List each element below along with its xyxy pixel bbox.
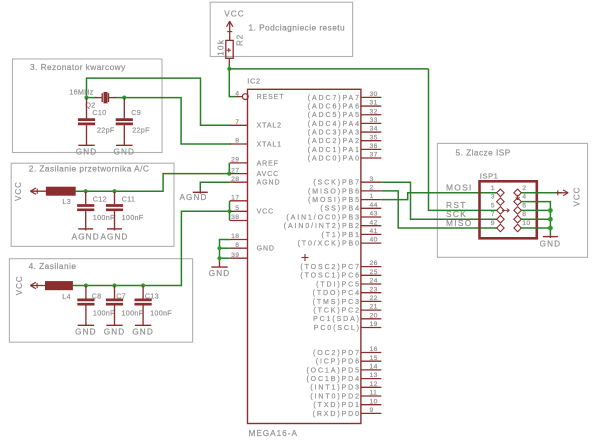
junction crystal left: [84, 96, 88, 100]
svg-text:C8: C8: [92, 291, 102, 300]
pin 34 stub: [361, 131, 381, 133]
svg-text:ISP1: ISP1: [480, 171, 499, 180]
pin 38 stub: [230, 220, 248, 222]
svg-text:8: 8: [235, 138, 239, 145]
svg-text:27: 27: [231, 167, 239, 174]
svg-text:5. Zlacze ISP: 5. Zlacze ISP: [456, 147, 511, 157]
IC2 origin cross: [302, 257, 309, 259]
power VCC (reset pull-up): [229, 21, 231, 40]
svg-text:L4: L4: [62, 292, 71, 301]
ground AGND near IC2: [199, 190, 201, 194]
wire crystal left node: [87, 97, 97, 99]
pin 16 stub: [361, 352, 381, 354]
capacitor C10: [86, 98, 88, 119]
svg-text:22pF: 22pF: [97, 126, 115, 135]
pin 43 stub: [361, 216, 381, 218]
svg-text:42: 42: [370, 219, 378, 226]
ground GND under C8: [85, 320, 87, 325]
svg-text:26: 26: [370, 260, 378, 267]
svg-text:(OC2)PD7: (OC2)PD7: [313, 350, 361, 357]
svg-text:(INT1)PD3: (INT1)PD3: [310, 385, 361, 392]
svg-text:31: 31: [370, 100, 378, 107]
wire AGND pin to AGND symbol: [200, 182, 230, 190]
svg-text:7: 7: [235, 119, 239, 126]
pin 12 stub: [361, 386, 381, 388]
junction L3-C11 tap: [112, 189, 116, 193]
junction L3-C12 tap: [84, 189, 88, 193]
wire main VCC net to IC VCC pin: [72, 211, 229, 285]
svg-text:C7: C7: [116, 291, 126, 300]
svg-text:GND: GND: [132, 327, 154, 336]
junction L4-C13 tap: [141, 283, 145, 287]
ground AGND under C12: [78, 228, 93, 230]
junction crystal right: [122, 96, 126, 100]
svg-text:2: 2: [522, 185, 526, 192]
pin 4 RESET with inversion circle: [237, 96, 243, 98]
ISP1 pin 5 direction arrow: [502, 209, 509, 211]
svg-text:C11: C11: [122, 194, 136, 203]
svg-text:10k: 10k: [217, 39, 226, 56]
svg-text:100nF: 100nF: [93, 213, 115, 222]
svg-text:XTAL1: XTAL1: [257, 141, 282, 148]
svg-text:C13: C13: [145, 291, 159, 300]
svg-text:AGND: AGND: [257, 180, 281, 187]
svg-text:AVCC: AVCC: [257, 171, 280, 178]
svg-text:(ADC5)PA5: (ADC5)PA5: [308, 112, 361, 119]
svg-text:5: 5: [491, 202, 495, 209]
pin 7 stub: [230, 124, 248, 126]
pin 30 stub: [361, 96, 381, 98]
svg-text:4. Zasilanie: 4. Zasilanie: [29, 261, 77, 271]
svg-text:(TCK)PC2: (TCK)PC2: [313, 308, 360, 315]
pin 15 stub: [361, 360, 381, 362]
svg-text:IC2: IC2: [247, 77, 260, 86]
svg-text:33: 33: [370, 117, 378, 124]
pin 2 stub: [361, 190, 381, 192]
wire XTAL1 net: [124, 98, 231, 144]
svg-text:20: 20: [370, 312, 378, 319]
svg-text:39: 39: [231, 252, 239, 259]
wire GND pin 6 branch: [220, 247, 230, 249]
pin 35 stub: [361, 140, 381, 142]
svg-text:1: 1: [491, 185, 495, 192]
svg-text:13: 13: [370, 372, 378, 379]
junction ISP pin 8: [548, 217, 553, 222]
svg-text:XTAL2: XTAL2: [257, 123, 282, 130]
capacitor C8: [85, 286, 87, 299]
wire RST net to ISP: [429, 69, 497, 211]
svg-text:25: 25: [370, 269, 378, 276]
wire ISP pin 8 branch: [521, 218, 550, 220]
pin 40 stub: [361, 242, 381, 244]
svg-text:(TXD)PD1: (TXD)PD1: [313, 402, 360, 409]
wire crystal right node: [115, 97, 125, 99]
pin 9 stub: [361, 412, 381, 414]
svg-text:VCC: VCC: [573, 187, 582, 207]
ISP1 pin 1 pad: [497, 189, 504, 196]
svg-text:(TMS)PC3: (TMS)PC3: [313, 299, 361, 306]
power VCC (main supply): [30, 285, 46, 287]
svg-text:3: 3: [491, 194, 495, 201]
svg-text:2: 2: [370, 185, 374, 192]
svg-text:(SS)PB4: (SS)PB4: [320, 206, 361, 213]
svg-text:40: 40: [370, 237, 378, 244]
svg-text:(TOSC2)PC7: (TOSC2)PC7: [300, 264, 361, 271]
svg-text:AREF: AREF: [257, 160, 279, 167]
pin 13 stub: [361, 378, 381, 380]
frame box 5 (Zlacze ISP): [437, 143, 587, 257]
svg-text:GND: GND: [257, 246, 275, 253]
ground GND under C7: [114, 320, 116, 325]
svg-text:19: 19: [370, 321, 378, 328]
svg-text:(ADC7)PA7: (ADC7)PA7: [308, 95, 361, 102]
svg-text:(ADC4)PA4: (ADC4)PA4: [308, 121, 361, 128]
svg-text:GND: GND: [540, 240, 562, 249]
junction reset node: [227, 67, 231, 71]
wire reset node to RST column: [229, 68, 428, 70]
inductor L4: [46, 282, 73, 290]
wire XTAL2 net: [87, 78, 232, 125]
wire MISO net PB6 to ISP: [381, 191, 497, 228]
svg-text:AGND: AGND: [179, 193, 207, 202]
svg-text:11: 11: [370, 390, 378, 397]
svg-text:GND: GND: [75, 327, 97, 336]
wire ISP pin 10 branch: [521, 227, 550, 229]
ISP1 pin 9 pad: [497, 224, 504, 231]
svg-text:VCC: VCC: [224, 9, 245, 18]
ground GND at ISP: [549, 236, 551, 238]
svg-text:17: 17: [231, 195, 239, 202]
svg-text:34: 34: [370, 126, 378, 133]
svg-text:16MHz: 16MHz: [69, 88, 93, 97]
svg-text:(SCK)PB7: (SCK)PB7: [313, 180, 361, 187]
svg-text:100nF: 100nF: [93, 308, 115, 317]
svg-text:(ADC0)PA0: (ADC0)PA0: [308, 155, 361, 162]
pin 20 stub: [361, 318, 381, 320]
wire MOSI net PB5 to ISP: [381, 193, 497, 200]
pin 1 stub: [361, 199, 381, 201]
connector ISP1 body: [480, 181, 537, 238]
pin 3 stub: [361, 181, 381, 183]
pin 10 stub: [361, 404, 381, 406]
svg-text:AGND: AGND: [100, 232, 128, 241]
svg-text:(OC1A)PD5: (OC1A)PD5: [306, 367, 360, 374]
junction GND pin 39: [217, 256, 221, 260]
svg-text:44: 44: [370, 202, 378, 209]
ISP1 pin 2 pad: [514, 189, 521, 196]
ISP1 pin 4 direction arrow: [517, 195, 519, 200]
svg-text:(MISO)PB6: (MISO)PB6: [308, 188, 361, 195]
svg-text:(ADC2)PA2: (ADC2)PA2: [308, 138, 361, 145]
wire AREF tie to AVCC: [228, 163, 230, 174]
svg-text:14: 14: [370, 364, 378, 371]
junction ISP pin 6: [548, 208, 553, 213]
svg-text:41: 41: [370, 228, 378, 235]
pin 32 stub: [361, 114, 381, 116]
frame box 2 (Zasilanie przetwornika A/C): [11, 163, 174, 246]
svg-text:VCC: VCC: [257, 209, 274, 216]
svg-text:(TOSC1)PC6: (TOSC1)PC6: [300, 273, 361, 280]
pin 23 stub: [361, 292, 381, 294]
svg-text:10: 10: [522, 220, 530, 227]
pin 31 stub: [361, 105, 381, 107]
svg-text:AGND: AGND: [72, 232, 100, 241]
svg-text:18: 18: [231, 233, 239, 240]
pin 24 stub: [361, 283, 381, 285]
svg-text:C9: C9: [131, 108, 141, 117]
svg-text:10: 10: [370, 398, 378, 405]
junction L4-C7 tap: [112, 283, 116, 287]
pin 22 stub: [361, 300, 381, 302]
svg-text:1: 1: [370, 193, 374, 200]
ground GND under C10: [86, 140, 88, 145]
junction ISP pin 10: [548, 226, 553, 231]
svg-text:R2: R2: [235, 34, 244, 46]
svg-text:L3: L3: [62, 197, 71, 206]
pin 39 stub: [230, 257, 248, 259]
svg-text:100nF: 100nF: [150, 308, 172, 317]
svg-text:9: 9: [491, 220, 495, 227]
pin 41 stub: [361, 233, 381, 235]
pin 28 stub: [230, 181, 248, 183]
svg-text:GND: GND: [209, 269, 231, 278]
svg-text:(ADC3)PA3: (ADC3)PA3: [308, 129, 361, 136]
pin 17 stub: [230, 200, 248, 202]
ground GND under IC2: [219, 262, 221, 267]
pin 5 stub: [230, 210, 248, 212]
svg-text:36: 36: [370, 143, 378, 150]
svg-text:38: 38: [231, 214, 239, 221]
svg-text:GND: GND: [104, 327, 126, 336]
svg-text:(TDO)PC4: (TDO)PC4: [313, 290, 361, 297]
svg-text:RESET: RESET: [257, 94, 285, 101]
svg-text:29: 29: [231, 157, 239, 164]
svg-text:43: 43: [370, 211, 378, 218]
pin 11 stub: [361, 395, 381, 397]
pin 44 stub: [361, 207, 381, 209]
junction L4-C8 tap: [84, 283, 88, 287]
svg-text:16: 16: [370, 346, 378, 353]
capacitor C9: [123, 98, 125, 119]
pin 26 stub: [361, 266, 381, 268]
svg-text:23: 23: [370, 286, 378, 293]
svg-text:100nF: 100nF: [122, 213, 144, 222]
wire SCK net PB7 to ISP: [381, 182, 497, 219]
svg-text:MEGA16-A: MEGA16-A: [249, 429, 298, 438]
ISP1 pin 3 pad: [497, 198, 504, 205]
wire ISP pin 4 to GND bus: [521, 202, 550, 236]
svg-text:8: 8: [522, 211, 526, 218]
svg-text:GND: GND: [76, 147, 98, 156]
pin 37 stub: [361, 157, 381, 159]
capacitor C7: [114, 286, 116, 299]
svg-text:MISO: MISO: [446, 218, 473, 228]
wire GND pin 39 branch: [220, 257, 230, 259]
svg-text:PC1(SDA): PC1(SDA): [313, 316, 361, 323]
svg-text:MOSI: MOSI: [446, 182, 473, 192]
svg-text:30: 30: [370, 91, 378, 98]
svg-text:C10: C10: [92, 108, 106, 117]
svg-text:C12: C12: [93, 194, 107, 203]
pin 36 stub: [361, 148, 381, 150]
junction VCC pin node: [227, 209, 231, 213]
svg-text:GND: GND: [114, 147, 136, 156]
inductor L3: [46, 187, 75, 195]
pin 42 stub: [361, 225, 381, 227]
svg-text:4: 4: [235, 90, 239, 97]
ground GND under C13: [142, 320, 144, 325]
pin 8 stub: [230, 143, 248, 145]
svg-text:22: 22: [370, 295, 378, 302]
svg-text:(T0/XCK)PB0: (T0/XCK)PB0: [298, 241, 361, 248]
ground AGND under C11: [107, 228, 122, 230]
svg-text:(ADC1)PA1: (ADC1)PA1: [308, 147, 361, 154]
svg-text:(ADC6)PA6: (ADC6)PA6: [308, 103, 361, 110]
svg-text:2. Zasilanie przetwornika A/C: 2. Zasilanie przetwornika A/C: [29, 164, 150, 174]
ISP1 pin 8 pad: [514, 215, 521, 222]
svg-text:(INT0)PD2: (INT0)PD2: [310, 393, 361, 400]
svg-text:3: 3: [370, 176, 374, 183]
pin 19 stub: [361, 327, 381, 329]
svg-text:22pF: 22pF: [132, 126, 150, 135]
svg-text:24: 24: [370, 278, 378, 285]
ISP1 pin 4 pad: [514, 198, 521, 205]
svg-text:6: 6: [235, 242, 239, 249]
frame box 4 (Zasilanie): [9, 259, 192, 343]
resistor R2: [226, 40, 233, 58]
svg-text:9: 9: [370, 407, 374, 414]
ground GND under C9: [123, 140, 125, 145]
wire analog VCC net to AVCC: [75, 174, 229, 192]
crystal Q2: [95, 97, 102, 99]
svg-text:15: 15: [370, 355, 378, 362]
wire ISP pin 6 branch: [521, 209, 550, 211]
capacitor C11: [114, 191, 116, 204]
svg-text:28: 28: [231, 176, 239, 183]
pin 29 stub: [230, 162, 248, 164]
ISP1 pin 7 pad: [497, 215, 504, 222]
pin 33 stub: [361, 122, 381, 124]
svg-text:(AIN0/INT2)PB2: (AIN0/INT2)PB2: [284, 223, 361, 230]
svg-text:(AIN1/OC0)PB3: (AIN1/OC0)PB3: [286, 214, 361, 221]
svg-text:100nF: 100nF: [122, 308, 144, 317]
IC IC2 MEGA16-A microcontroller body: [248, 89, 361, 423]
svg-text:7: 7: [491, 211, 495, 218]
junction GND pin 6: [217, 246, 221, 250]
svg-text:VCC: VCC: [15, 275, 24, 295]
svg-text:37: 37: [370, 152, 378, 159]
pin 6 stub: [230, 247, 248, 249]
svg-text:(MOSI)PB5: (MOSI)PB5: [308, 197, 361, 204]
power VCC (analog supply): [30, 190, 46, 192]
frame box 3 (Rezonator kwarcowy): [13, 59, 163, 153]
pin 25 stub: [361, 274, 381, 276]
capacitor C12: [85, 191, 87, 204]
wire R2 bottom to reset node: [228, 58, 230, 63]
pin 18 stub: [230, 239, 248, 241]
wire ISP pin 2 to VCC: [521, 192, 562, 194]
svg-text:12: 12: [370, 381, 378, 388]
svg-text:(T1)PB1: (T1)PB1: [322, 232, 361, 239]
svg-text:1. Podciagniecie resetu: 1. Podciagniecie resetu: [249, 23, 346, 33]
frame box 1 (Podciagniecie resetu): [210, 2, 352, 56]
svg-text:3. Rezonator kwarcowy: 3. Rezonator kwarcowy: [30, 62, 126, 72]
ISP1 pin 6 pad: [514, 207, 521, 214]
wire VCC pins tie 17-5-38: [229, 201, 231, 221]
svg-text:(RXD)PD0: (RXD)PD0: [313, 411, 361, 418]
svg-text:VCC: VCC: [14, 181, 23, 201]
svg-text:(ICP)PD6: (ICP)PD6: [316, 359, 361, 366]
svg-text:4: 4: [522, 194, 526, 201]
pin 14 stub: [361, 369, 381, 371]
pin 27 stub: [230, 173, 248, 175]
svg-text:6: 6: [522, 202, 526, 209]
capacitor C13: [142, 286, 144, 299]
svg-text:21: 21: [370, 304, 378, 311]
svg-text:(OC1B)PD4: (OC1B)PD4: [306, 376, 360, 383]
wire GND pins tie 18-6-39: [220, 240, 230, 262]
ISP1 pin 10 pad: [514, 224, 521, 231]
svg-text:PC0(SCL): PC0(SCL): [314, 325, 361, 332]
junction AVCC node: [227, 172, 231, 176]
svg-text:35: 35: [370, 134, 378, 141]
ISP1 pin 5 pad: [497, 207, 504, 214]
svg-text:5: 5: [235, 205, 239, 212]
svg-text:(TDI)PC5: (TDI)PC5: [316, 281, 361, 288]
power VCC at ISP: [556, 192, 568, 194]
pin 21 stub: [361, 309, 381, 311]
svg-text:32: 32: [370, 108, 378, 115]
